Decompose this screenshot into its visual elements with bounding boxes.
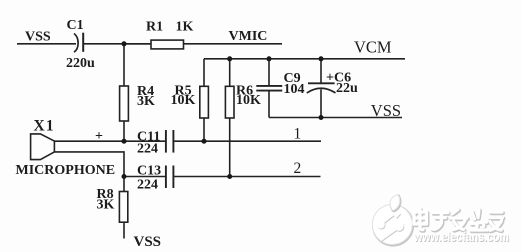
resistor R8 body bbox=[119, 192, 127, 223]
resistor R4 body bbox=[120, 86, 129, 121]
svg-text:220u: 220u bbox=[66, 56, 95, 71]
svg-text:104: 104 bbox=[284, 82, 305, 97]
junction: VCM rail / C6 bbox=[319, 56, 324, 61]
junction: line 1 / R5 bbox=[202, 139, 207, 144]
svg-text:224: 224 bbox=[137, 142, 158, 157]
junction: line 1 / R4 bbox=[122, 139, 127, 144]
wire: VCM rail to R5 bbox=[203, 59, 205, 87]
watermark logo inner trace bbox=[378, 213, 404, 241]
watermark text: brand glyphs bbox=[414, 209, 503, 231]
capacitor C11 right plate bbox=[172, 130, 174, 153]
wire: line 2 from C13 to pin 2 bbox=[173, 176, 320, 178]
watermark logo circle bbox=[372, 205, 413, 246]
capacitor C13 left plate bbox=[165, 166, 167, 189]
capacitor C6 curved plate bbox=[307, 88, 336, 93]
wire: line 2 to C13 bbox=[124, 176, 166, 178]
watermark text: www.elecfans.com bbox=[413, 230, 510, 245]
junction: line 2 / R6 bbox=[227, 174, 232, 179]
capacitor C11 left plate bbox=[165, 130, 167, 153]
wire: R6 down to line 2 (crosses line 1) bbox=[229, 118, 231, 177]
wire: VCM rail to C6 bbox=[320, 59, 322, 84]
capacitor C6 straight plate (+) bbox=[308, 82, 335, 84]
watermark logo leaf bbox=[390, 195, 401, 212]
junction: VCM rail / C9 bbox=[267, 56, 272, 61]
wire: node A to R1 bbox=[124, 43, 151, 45]
svg-text:C1: C1 bbox=[67, 18, 84, 33]
wire: C6 to VSS rail bbox=[320, 89, 322, 117]
microphone X1 body bbox=[31, 134, 55, 160]
svg-text:224: 224 bbox=[137, 178, 158, 193]
junction: VCM rail / R6 bbox=[227, 56, 232, 61]
svg-text:VCM: VCM bbox=[354, 38, 392, 57]
wire: line 1 from C11 to pin 1 bbox=[173, 140, 321, 142]
wire: node A down to R4 bbox=[123, 44, 125, 86]
resistor R5 body bbox=[200, 86, 209, 118]
capacitor C9 top plate bbox=[256, 85, 282, 87]
svg-text:1K: 1K bbox=[176, 19, 194, 34]
wire: R1 to VMIC bbox=[184, 43, 283, 45]
wire: VSS input to C1 bbox=[17, 43, 76, 45]
wire: microphone + terminal to C11 bbox=[54, 140, 165, 142]
junction node A (C1/R1/R4) bbox=[122, 41, 127, 46]
junction: line 2 / mic / R8 bbox=[122, 174, 127, 179]
capacitor C13 right plate bbox=[172, 166, 174, 189]
wire: R4 to line 1 bbox=[123, 121, 125, 141]
wire: microphone - terminal to line 2 corner bbox=[54, 152, 124, 177]
wire: R5 to line 1 bbox=[203, 118, 205, 141]
svg-text:MICROPHONE: MICROPHONE bbox=[16, 163, 116, 178]
svg-text:1: 1 bbox=[294, 125, 302, 142]
svg-text:C13: C13 bbox=[137, 163, 161, 178]
wire: VCM rail to R6 bbox=[229, 59, 231, 87]
junction: VSS rail / C6 bbox=[319, 115, 324, 120]
svg-text:R1: R1 bbox=[146, 19, 163, 34]
wire: C9 to VSS rail bbox=[268, 91, 270, 118]
svg-text:10K: 10K bbox=[236, 93, 261, 108]
svg-text:VMIC: VMIC bbox=[229, 29, 268, 44]
svg-text:2: 2 bbox=[294, 160, 302, 177]
wire: VCM rail bbox=[204, 58, 405, 60]
svg-text:VSS: VSS bbox=[134, 234, 162, 250]
resistor R6 body bbox=[225, 86, 234, 118]
svg-text:+: + bbox=[95, 129, 103, 144]
svg-text:VSS: VSS bbox=[25, 29, 51, 44]
capacitor C1 straight plate bbox=[82, 33, 84, 52]
svg-text:3K: 3K bbox=[137, 94, 155, 109]
wire: VSS rail bbox=[269, 117, 402, 119]
svg-text:10K: 10K bbox=[171, 93, 196, 108]
svg-text:www.elecfans.com: www.elecfans.com bbox=[413, 230, 509, 244]
svg-text:3K: 3K bbox=[97, 198, 115, 213]
svg-text:X1: X1 bbox=[34, 118, 55, 135]
wire: line 2 node down to R8 bbox=[123, 177, 125, 192]
svg-text:VSS: VSS bbox=[371, 101, 401, 120]
resistor R1 body bbox=[151, 40, 184, 49]
wire: C1 to node A bbox=[83, 43, 151, 45]
wire: R8 to VSS bbox=[123, 222, 125, 238]
wire: VCM rail to C9 bbox=[268, 59, 270, 86]
capacitor C1 curved plate bbox=[74, 34, 78, 53]
capacitor C9 bottom plate bbox=[256, 90, 282, 92]
svg-text:22u: 22u bbox=[336, 81, 358, 96]
